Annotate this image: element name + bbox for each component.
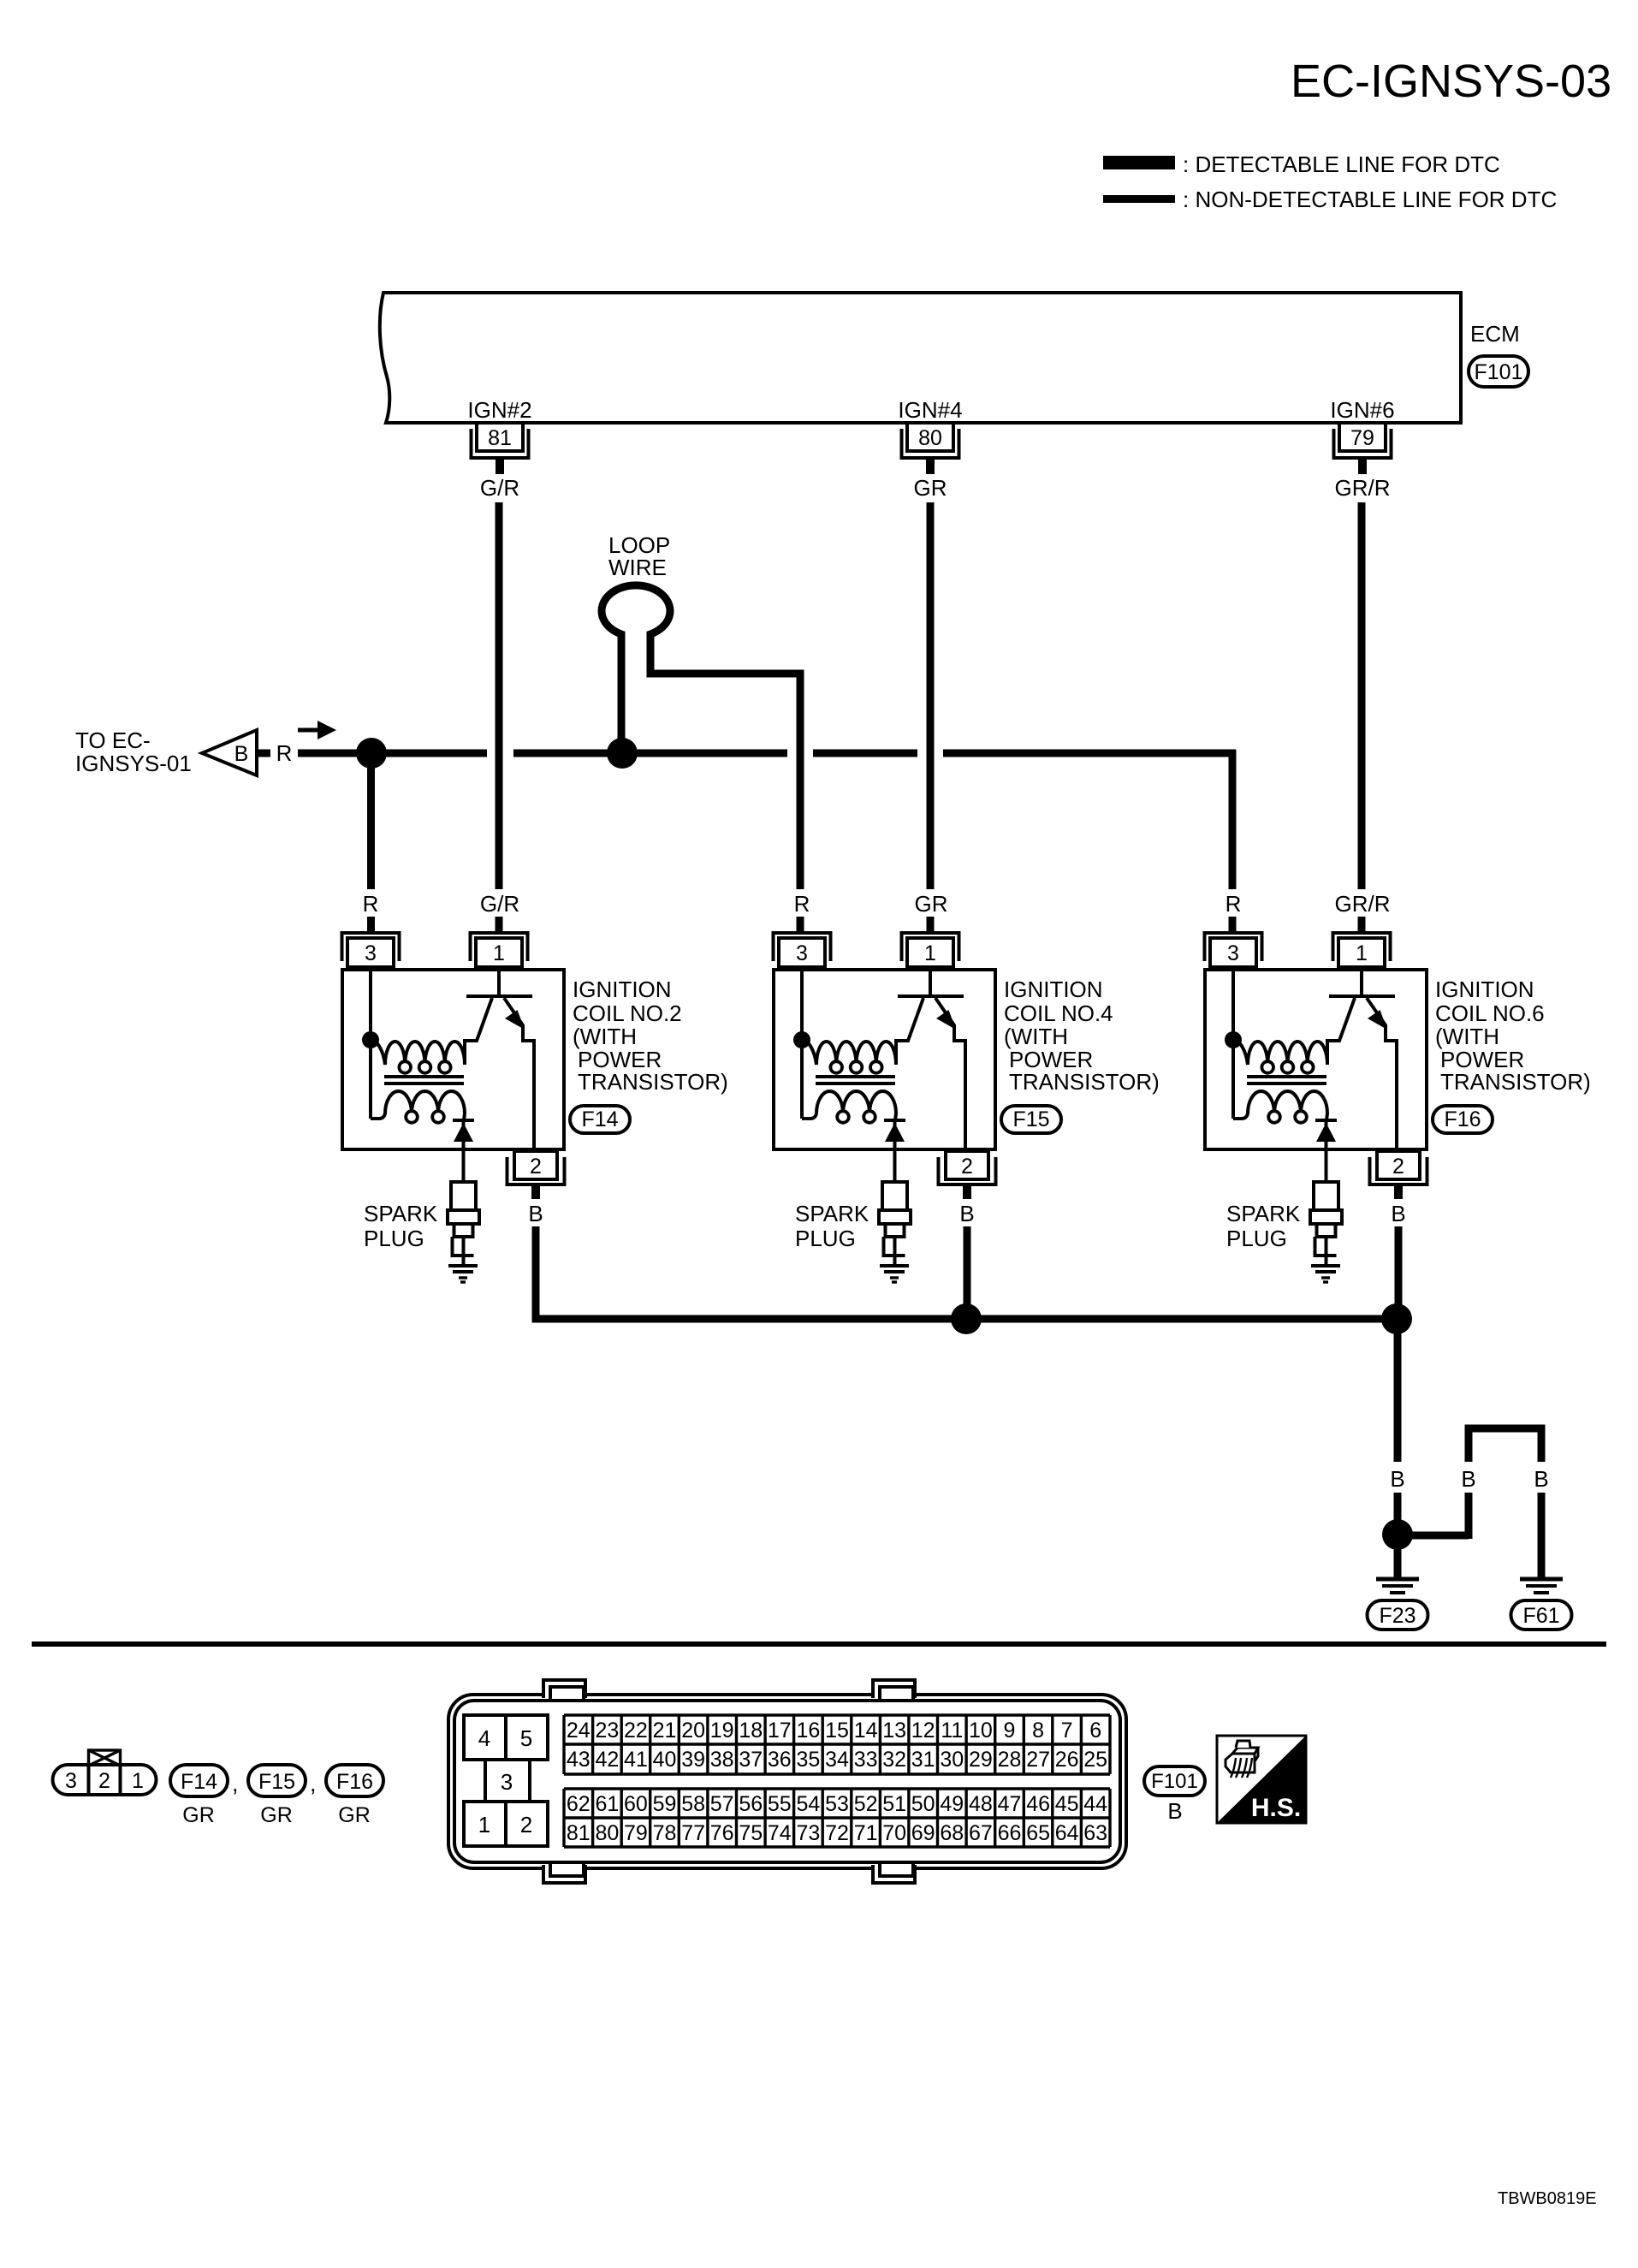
svg-text:62: 62 <box>567 1792 591 1816</box>
wire GR from ECM down to ignition coil pin 1 <box>927 502 935 889</box>
svg-text:58: 58 <box>681 1792 705 1816</box>
H.S. mark box <box>1217 1736 1306 1823</box>
svg-text:(WITH: (WITH <box>573 1024 637 1049</box>
svg-text:B: B <box>959 1201 974 1226</box>
svg-text:GR: GR <box>338 1803 371 1827</box>
svg-text:G/R: G/R <box>480 475 519 501</box>
loop wire symbol and run to coil No.4 pin 3 <box>602 585 800 889</box>
connector top tab <box>543 1680 585 1699</box>
svg-text:11: 11 <box>941 1719 963 1743</box>
svg-text:B: B <box>1391 1201 1405 1226</box>
junction node on R bus (to coil No.2 pin 3) <box>356 738 387 769</box>
wire B from coil No.4 pin 2 down <box>964 1226 971 1319</box>
svg-text:55: 55 <box>768 1792 792 1816</box>
svg-text:60: 60 <box>624 1792 648 1816</box>
internal junction dot <box>1225 1031 1242 1048</box>
internal wire from pin 3 <box>1231 970 1235 1119</box>
wire segment into coil pin 3 <box>797 917 804 933</box>
internal wire from pin 3 <box>800 970 804 1119</box>
svg-text:1: 1 <box>478 1812 490 1838</box>
svg-text:1: 1 <box>493 941 505 965</box>
ignition coil No.2 pin 3 bracket <box>342 933 400 961</box>
svg-text:3: 3 <box>501 1769 513 1795</box>
ground connector F61 oval <box>1511 1600 1572 1630</box>
connector terminal grid rows 24-6 / 43-25 <box>564 1715 1110 1774</box>
ignition coil No.2 pin 2 bracket <box>507 1157 565 1184</box>
wire from diode to spark plug <box>462 1120 466 1182</box>
connector key cavity 2 <box>506 1802 548 1846</box>
svg-text:67: 67 <box>969 1821 993 1845</box>
svg-text:79: 79 <box>624 1821 648 1845</box>
svg-text:: NON-DETECTABLE LINE FOR DTC: : NON-DETECTABLE LINE FOR DTC <box>1183 187 1557 212</box>
svg-text:TRANSISTOR): TRANSISTOR) <box>578 1069 728 1095</box>
power transistor emitter line <box>935 998 965 1149</box>
ignition coil No.2 pin 1 bracket <box>471 933 528 961</box>
svg-text:B: B <box>1390 1466 1404 1492</box>
wire GR/R from ECM down to ignition coil pin 1 <box>1358 502 1366 889</box>
svg-text:24: 24 <box>567 1719 591 1743</box>
svg-text:63: 63 <box>1083 1821 1107 1845</box>
svg-text:F101: F101 <box>1475 360 1523 384</box>
power transistor collector wire from pin 1 <box>929 970 932 994</box>
svg-text:ECM: ECM <box>1470 321 1520 347</box>
svg-text:B: B <box>528 1201 543 1226</box>
coil connector face (pins 3 2 1) <box>53 1765 157 1795</box>
svg-text:50: 50 <box>911 1792 935 1816</box>
svg-text:B: B <box>1167 1798 1182 1824</box>
coil connector face key (X box) <box>89 1750 121 1766</box>
svg-text:: DETECTABLE LINE FOR DTC: : DETECTABLE LINE FOR DTC <box>1183 151 1500 177</box>
separator rule <box>32 1642 1606 1647</box>
svg-text:79: 79 <box>1350 426 1374 450</box>
svg-text:(WITH: (WITH <box>1004 1024 1068 1049</box>
svg-text:81: 81 <box>567 1821 591 1845</box>
svg-text:65: 65 <box>1026 1821 1050 1845</box>
internal wire from pin 3 <box>369 970 372 1119</box>
svg-text:71: 71 <box>854 1821 878 1845</box>
ignition coil No.4 pin 3 box <box>779 938 825 967</box>
pin 2 wire stub <box>531 1184 540 1199</box>
svg-text:44: 44 <box>1083 1792 1107 1816</box>
svg-text:F14: F14 <box>581 1107 618 1131</box>
svg-text:H.S.: H.S. <box>1251 1794 1301 1822</box>
power transistor base bar <box>1329 994 1395 998</box>
ground connector F23 oval <box>1368 1600 1428 1630</box>
spark plug ground <box>1311 1266 1340 1282</box>
ECM terminal 79 box <box>1339 423 1386 451</box>
connector key cavity 5 <box>506 1715 548 1760</box>
wire from diode to spark plug <box>1325 1120 1328 1182</box>
svg-text:42: 42 <box>595 1748 619 1772</box>
ECM terminal 80 shield bracket <box>902 429 959 458</box>
svg-text:PLUG: PLUG <box>795 1226 856 1251</box>
svg-text:GR: GR <box>915 891 948 917</box>
svg-text:R: R <box>276 740 293 766</box>
power transistor collector wire from pin 1 <box>497 970 501 994</box>
svg-text:SPARK: SPARK <box>795 1201 869 1226</box>
connector F101 oval (ECM) <box>1469 356 1528 387</box>
ECM terminal 80 box <box>907 423 953 451</box>
svg-text:SPARK: SPARK <box>1226 1201 1301 1226</box>
power transistor base-to-winding line <box>895 998 923 1041</box>
svg-text:(WITH: (WITH <box>1435 1024 1499 1049</box>
connector F14 oval <box>570 1106 630 1133</box>
bridge wire to F61 (n-shape) <box>1465 1428 1546 1577</box>
svg-text:45: 45 <box>1055 1792 1079 1816</box>
power transistor emitter line <box>504 998 534 1149</box>
internal junction dot <box>793 1031 810 1048</box>
wire from node to bridge <box>1405 1532 1469 1540</box>
ignition coil No.6 pin 1 bracket <box>1333 933 1391 961</box>
ECM box (with torn left edge) <box>380 293 1461 423</box>
svg-text:15: 15 <box>825 1719 849 1743</box>
svg-text:IGNITION: IGNITION <box>1004 977 1103 1002</box>
svg-text:,: , <box>232 1771 239 1796</box>
svg-text:5: 5 <box>520 1725 532 1751</box>
svg-text:36: 36 <box>768 1748 792 1772</box>
transformer core <box>384 1077 464 1084</box>
diode (pointing up) <box>1316 1123 1336 1142</box>
direction arrow <box>298 728 319 733</box>
svg-text:35: 35 <box>796 1748 820 1772</box>
stub from triangle <box>258 750 270 757</box>
svg-text:37: 37 <box>739 1748 763 1772</box>
transformer secondary winding <box>802 1091 896 1120</box>
ground symbol F23 <box>1376 1579 1419 1593</box>
svg-text:75: 75 <box>739 1821 763 1845</box>
svg-text:9: 9 <box>1004 1719 1016 1743</box>
internal junction dot <box>362 1031 379 1048</box>
wire B from coil No.2 pin 2 down <box>532 1226 540 1317</box>
svg-text:74: 74 <box>768 1821 792 1845</box>
wire segment into coil pin 1 <box>927 917 935 933</box>
svg-text:EC-IGNSYS-03: EC-IGNSYS-03 <box>1291 56 1611 107</box>
svg-text:2: 2 <box>961 1155 973 1179</box>
ignition coil No.4 pin 2 box <box>946 1151 988 1179</box>
svg-text:3: 3 <box>796 941 808 965</box>
ignition coil No.2 body box <box>342 970 564 1149</box>
svg-text:R: R <box>363 891 379 917</box>
power transistor base bar <box>466 994 532 998</box>
svg-text:61: 61 <box>595 1792 619 1816</box>
diode cathode bar <box>1315 1119 1337 1122</box>
svg-text:PLUG: PLUG <box>364 1226 424 1251</box>
connector F16 oval (legend) <box>326 1765 383 1796</box>
svg-text:F16: F16 <box>1444 1107 1481 1131</box>
transformer core <box>816 1077 895 1084</box>
connector top tab <box>873 1680 915 1699</box>
ECM terminal 81 box <box>477 423 523 451</box>
svg-text:WIRE: WIRE <box>608 555 667 580</box>
svg-text:49: 49 <box>940 1792 964 1816</box>
svg-text:GR: GR <box>914 475 947 501</box>
svg-text:6: 6 <box>1089 1719 1101 1743</box>
ignition coil No.6 pin 3 bracket <box>1205 933 1262 961</box>
svg-text:12: 12 <box>911 1719 935 1743</box>
svg-text:F15: F15 <box>1012 1107 1049 1131</box>
svg-text:,: , <box>310 1771 317 1796</box>
svg-text:29: 29 <box>969 1748 993 1772</box>
svg-text:2: 2 <box>1392 1155 1404 1179</box>
svg-text:18: 18 <box>739 1719 763 1743</box>
ignition coil No.4 pin 1 box <box>907 938 953 967</box>
connector terminal grid rows 62-44 / 81-63 <box>564 1789 1110 1847</box>
svg-text:43: 43 <box>567 1748 591 1772</box>
ignition coil No.2 pin 1 box <box>476 938 522 967</box>
ECM connector outer shell <box>448 1695 1126 1868</box>
ECM terminal 79 wire stub <box>1358 458 1367 474</box>
ignition coil No.6 pin 1 box <box>1338 938 1385 967</box>
svg-text:25: 25 <box>1083 1748 1107 1772</box>
diode (pointing up) <box>454 1123 473 1142</box>
wire segment into coil pin 3 <box>367 917 375 933</box>
connector F15 oval <box>1001 1106 1061 1133</box>
svg-text:54: 54 <box>796 1792 820 1816</box>
svg-text:78: 78 <box>653 1821 677 1845</box>
svg-text:57: 57 <box>710 1792 734 1816</box>
power transistor collector wire from pin 1 <box>1360 970 1363 994</box>
svg-text:COIL NO.6: COIL NO.6 <box>1435 1000 1545 1026</box>
legend bar: detectable line for DTC <box>1103 156 1175 169</box>
power transistor emitter arrowhead <box>1368 1010 1387 1030</box>
svg-text:TRANSISTOR): TRANSISTOR) <box>1009 1069 1160 1095</box>
svg-text:PLUG: PLUG <box>1226 1226 1287 1251</box>
spark plug ground <box>448 1266 478 1282</box>
ECM connector inner shell <box>454 1701 1120 1862</box>
svg-text:GR/R: GR/R <box>1335 891 1391 917</box>
svg-text:19: 19 <box>710 1719 734 1743</box>
svg-text:34: 34 <box>825 1748 849 1772</box>
svg-text:51: 51 <box>882 1792 906 1816</box>
spark plug No.6 <box>1310 1182 1342 1266</box>
svg-text:F15: F15 <box>258 1770 295 1794</box>
svg-text:47: 47 <box>998 1792 1022 1816</box>
svg-text:68: 68 <box>940 1821 964 1845</box>
junction node B bus (coil No.6) <box>1381 1303 1412 1334</box>
svg-text:56: 56 <box>739 1792 763 1816</box>
svg-text:7: 7 <box>1061 1719 1073 1743</box>
power transistor emitter arrowhead <box>505 1010 525 1030</box>
svg-text:3: 3 <box>1227 941 1239 965</box>
spark plug ground <box>880 1266 909 1282</box>
svg-text:59: 59 <box>653 1792 677 1816</box>
svg-text:13: 13 <box>882 1719 906 1743</box>
svg-text:66: 66 <box>998 1821 1022 1845</box>
pin 2 wire stub <box>1394 1184 1403 1199</box>
ignition coil No.2 pin 2 box <box>514 1151 557 1179</box>
svg-text:2: 2 <box>98 1769 110 1793</box>
spark plug No.4 <box>879 1182 911 1266</box>
svg-text:F101: F101 <box>1151 1770 1198 1793</box>
svg-text:F14: F14 <box>181 1770 217 1794</box>
svg-text:16: 16 <box>796 1719 820 1743</box>
diode cathode bar <box>453 1119 474 1122</box>
ignition coil No.4 body box <box>774 970 995 1149</box>
connector key cavity 3 (open) <box>485 1760 530 1802</box>
connector F14 oval (legend) <box>170 1765 228 1796</box>
svg-text:IGNSYS-01: IGNSYS-01 <box>75 751 192 776</box>
svg-text:B: B <box>1534 1466 1548 1492</box>
wire R bus horizontal (broken at crossovers) <box>298 750 1236 757</box>
ignition coil No.6 pin 2 bracket <box>1370 1157 1427 1184</box>
svg-text:TO EC-: TO EC- <box>75 727 151 753</box>
ignition coil No.6 pin 2 box <box>1377 1151 1420 1179</box>
svg-text:46: 46 <box>1026 1792 1050 1816</box>
svg-text:3: 3 <box>65 1769 77 1793</box>
ignition coil No.6 body box <box>1205 970 1427 1149</box>
svg-text:GR: GR <box>260 1803 293 1827</box>
svg-text:22: 22 <box>624 1719 648 1743</box>
svg-text:20: 20 <box>681 1719 705 1743</box>
svg-text:39: 39 <box>681 1748 705 1772</box>
junction node on R bus (loop wire) <box>607 738 638 769</box>
svg-text:26: 26 <box>1055 1748 1079 1772</box>
svg-text:F23: F23 <box>1379 1604 1415 1628</box>
svg-text:B: B <box>234 742 249 766</box>
legend bar: non-detectable line for DTC <box>1103 195 1175 203</box>
svg-text:17: 17 <box>768 1719 792 1743</box>
connector bottom tab <box>873 1864 915 1883</box>
svg-text:38: 38 <box>710 1748 734 1772</box>
svg-text:R: R <box>1226 891 1242 917</box>
svg-text:32: 32 <box>882 1748 906 1772</box>
connector bottom tab <box>543 1864 585 1883</box>
svg-text:8: 8 <box>1032 1719 1044 1743</box>
connector key cavity 4 <box>464 1715 506 1760</box>
svg-text:80: 80 <box>595 1821 619 1845</box>
svg-text:53: 53 <box>825 1792 849 1816</box>
transformer primary winding <box>802 1040 909 1065</box>
H.S. connector pictogram <box>1226 1741 1258 1778</box>
svg-text:21: 21 <box>653 1719 677 1743</box>
svg-text:80: 80 <box>918 426 942 450</box>
svg-text:3: 3 <box>365 941 377 965</box>
power transistor emitter arrowhead <box>936 1010 956 1030</box>
svg-text:GR: GR <box>182 1803 215 1827</box>
svg-text:52: 52 <box>854 1792 878 1816</box>
svg-text:10: 10 <box>969 1719 993 1743</box>
svg-text:33: 33 <box>854 1748 878 1772</box>
svg-text:IGNITION: IGNITION <box>1435 977 1534 1002</box>
svg-text:40: 40 <box>653 1748 677 1772</box>
svg-text:F16: F16 <box>336 1770 373 1794</box>
ignition coil No.4 pin 2 bracket <box>939 1157 996 1184</box>
transformer primary winding <box>1233 1040 1340 1065</box>
power transistor base bar <box>898 994 964 998</box>
ECM terminal 81 wire stub <box>496 458 504 474</box>
wire G/R from ECM down to ignition coil pin 1 <box>496 502 503 889</box>
power transistor base-to-winding line <box>1326 998 1355 1041</box>
svg-text:23: 23 <box>595 1719 619 1743</box>
wire R from bus down to coil No.2 pin 3 <box>367 761 375 889</box>
svg-text:2: 2 <box>520 1812 532 1838</box>
svg-text:TRANSISTOR): TRANSISTOR) <box>1440 1069 1591 1095</box>
power transistor emitter line <box>1367 998 1397 1149</box>
svg-text:69: 69 <box>911 1821 935 1845</box>
svg-text:73: 73 <box>796 1821 820 1845</box>
svg-text:48: 48 <box>969 1792 993 1816</box>
svg-text:IGNITION: IGNITION <box>573 977 672 1002</box>
transformer secondary winding <box>371 1091 465 1120</box>
svg-text:64: 64 <box>1055 1821 1079 1845</box>
svg-text:GR/R: GR/R <box>1335 475 1391 501</box>
ignition coil No.4 pin 1 bracket <box>902 933 959 961</box>
svg-text:IGN#2: IGN#2 <box>467 397 531 423</box>
svg-text:COIL NO.2: COIL NO.2 <box>573 1000 682 1026</box>
connector F101 oval (bottom) <box>1144 1766 1205 1796</box>
transformer primary winding <box>371 1040 478 1065</box>
transformer secondary winding <box>1233 1091 1327 1120</box>
wire from diode to spark plug <box>893 1120 897 1182</box>
diode (pointing up) <box>885 1123 905 1142</box>
svg-text:IGN#6: IGN#6 <box>1330 397 1394 423</box>
svg-text:SPARK: SPARK <box>364 1201 438 1226</box>
svg-text:41: 41 <box>624 1748 648 1772</box>
svg-text:28: 28 <box>998 1748 1022 1772</box>
ECM terminal 81 shield bracket <box>472 429 529 458</box>
svg-text:B: B <box>1461 1466 1475 1492</box>
junction node above ground F23 <box>1382 1519 1413 1550</box>
svg-text:2: 2 <box>530 1155 542 1179</box>
connector key cavity 1 <box>464 1802 506 1846</box>
svg-text:TBWB0819E: TBWB0819E <box>1498 2189 1597 2208</box>
svg-text:14: 14 <box>854 1719 878 1743</box>
svg-text:COIL NO.4: COIL NO.4 <box>1004 1000 1113 1026</box>
connector F16 oval <box>1433 1106 1493 1133</box>
wire B bus horizontal <box>532 1315 1401 1323</box>
svg-text:1: 1 <box>132 1769 144 1793</box>
svg-text:31: 31 <box>911 1748 935 1772</box>
svg-text:1: 1 <box>924 941 936 965</box>
svg-text:76: 76 <box>710 1821 734 1845</box>
wire B from coil No.6 pin 2 down <box>1395 1226 1403 1319</box>
diode cathode bar <box>884 1119 905 1122</box>
svg-text:F61: F61 <box>1522 1604 1559 1628</box>
spark plug No.2 <box>448 1182 479 1266</box>
wire from node to F23 ground <box>1394 1549 1402 1577</box>
pin 2 wire stub <box>963 1184 971 1199</box>
svg-text:77: 77 <box>681 1821 705 1845</box>
svg-text:1: 1 <box>1356 941 1368 965</box>
junction node B bus (coil No.4) <box>951 1303 982 1334</box>
wire segment into coil pin 1 <box>1358 917 1366 933</box>
svg-text:R: R <box>794 891 810 917</box>
page connector triangle B <box>202 730 257 775</box>
wire R bus corner down to coil No.6 pin 3 <box>1229 750 1237 889</box>
svg-text:81: 81 <box>488 426 512 450</box>
svg-text:27: 27 <box>1026 1748 1050 1772</box>
svg-text:70: 70 <box>882 1821 906 1845</box>
ignition coil No.4 pin 3 bracket <box>774 933 831 961</box>
ignition coil No.2 pin 3 box <box>347 938 394 967</box>
transformer core <box>1247 1077 1326 1084</box>
svg-text:30: 30 <box>940 1748 964 1772</box>
power transistor base-to-winding line <box>464 998 492 1041</box>
connector F15 oval (legend) <box>248 1765 306 1796</box>
ECM terminal 80 wire stub <box>926 458 935 474</box>
ECM terminal 79 shield bracket <box>1334 429 1392 458</box>
svg-text:G/R: G/R <box>480 891 519 917</box>
svg-text:IGN#4: IGN#4 <box>898 397 962 423</box>
ignition coil No.6 pin 3 box <box>1210 938 1256 967</box>
ground symbol F61 <box>1520 1579 1563 1593</box>
wire segment into coil pin 1 <box>496 917 503 933</box>
wire B down from bus <box>1394 1319 1402 1462</box>
svg-text:4: 4 <box>478 1725 490 1751</box>
wire segment into coil pin 3 <box>1229 917 1237 933</box>
svg-text:72: 72 <box>825 1821 849 1845</box>
